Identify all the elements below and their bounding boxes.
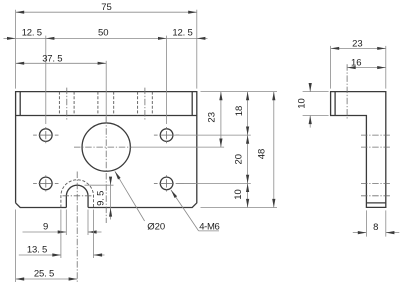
svg-text:25. 5: 25. 5	[34, 268, 54, 279]
dim 50	[46, 27, 167, 124]
dim 18	[234, 92, 249, 208]
svg-text:8: 8	[373, 222, 378, 233]
dim 16 side	[347, 58, 386, 70]
M6 hole upper-right center cross	[154, 127, 179, 143]
M6 hole lower-right	[160, 177, 173, 190]
big hole horizontal centerline	[74, 146, 132, 148]
front view right chamfer line	[191, 92, 193, 116]
svg-text:50: 50	[98, 27, 109, 38]
flange hidden hole A	[59, 92, 74, 116]
dim 9.5 vertical	[85, 177, 114, 220]
dim 20	[234, 135, 250, 183]
svg-text:10: 10	[233, 189, 244, 200]
svg-text:16: 16	[351, 58, 362, 69]
side view bottom chamfer line	[366, 202, 385, 204]
dim 23 vertical	[206, 92, 222, 148]
side view slot centerline	[361, 195, 391, 197]
M6 hole upper-left	[40, 129, 53, 142]
svg-text:18: 18	[234, 106, 245, 117]
svg-text:12. 5: 12. 5	[22, 27, 42, 38]
M6 hole lower-left center cross	[33, 175, 58, 191]
M6 hole upper-left center cross	[33, 127, 58, 143]
svg-text:48: 48	[256, 149, 267, 160]
svg-text:Ø20: Ø20	[147, 222, 165, 233]
svg-text:23: 23	[206, 112, 217, 123]
side view big hole centerline	[361, 146, 391, 148]
side view flange hole centerline	[346, 64, 348, 120]
label phi20 leader	[115, 171, 165, 232]
front view plate outline	[16, 92, 197, 208]
dim 13.5	[19, 210, 105, 259]
dim 12.5 right	[167, 27, 208, 40]
svg-text:9: 9	[43, 222, 48, 233]
side view outline	[331, 92, 386, 208]
U-slot visible outline	[66, 185, 88, 207]
dim 25.5	[16, 210, 78, 283]
svg-text:12. 5: 12. 5	[172, 27, 192, 38]
U-slot hidden counterbore	[61, 180, 94, 208]
dim 23 side	[331, 38, 386, 88]
dim 10 side	[296, 83, 328, 128]
side view row2 centerline	[361, 182, 391, 184]
svg-text:37. 5: 37. 5	[42, 53, 62, 64]
flange hidden hole B	[98, 92, 114, 116]
M6 hole lower-left	[40, 177, 53, 190]
svg-text:9. 5: 9. 5	[96, 191, 107, 206]
label 4-M6 leader	[171, 190, 219, 232]
U-slot horizontal centerline	[63, 195, 93, 197]
front view flange edge line	[16, 115, 197, 117]
dim 10 front	[233, 183, 249, 207]
svg-text:75: 75	[101, 2, 112, 13]
dim 37.5	[16, 53, 107, 122]
svg-text:10: 10	[296, 98, 307, 109]
big hole vertical centerline	[105, 117, 107, 223]
svg-text:13. 5: 13. 5	[27, 245, 47, 256]
M6 hole upper-right	[160, 129, 173, 142]
flange hole A centerline	[66, 88, 68, 120]
side view tip chamfer line	[334, 92, 336, 116]
right side extension lines	[132, 92, 277, 208]
side view row1 centerline	[361, 134, 391, 136]
big hole phi20	[82, 123, 130, 171]
svg-text:20: 20	[234, 154, 245, 165]
dim 12.5 left	[4, 27, 46, 40]
svg-text:4-M6: 4-M6	[199, 221, 219, 232]
M6 hole lower-right center cross	[154, 175, 195, 191]
dim 9 slot width	[23, 210, 102, 236]
flange hole C centerline	[144, 88, 146, 120]
dim 8 side	[353, 210, 400, 236]
flange hidden hole C	[138, 92, 153, 116]
dim 75	[16, 2, 197, 88]
svg-text:23: 23	[352, 38, 363, 49]
front view left chamfer line	[19, 92, 21, 116]
U-slot vertical centerline	[76, 172, 78, 282]
dim 48	[256, 92, 275, 208]
